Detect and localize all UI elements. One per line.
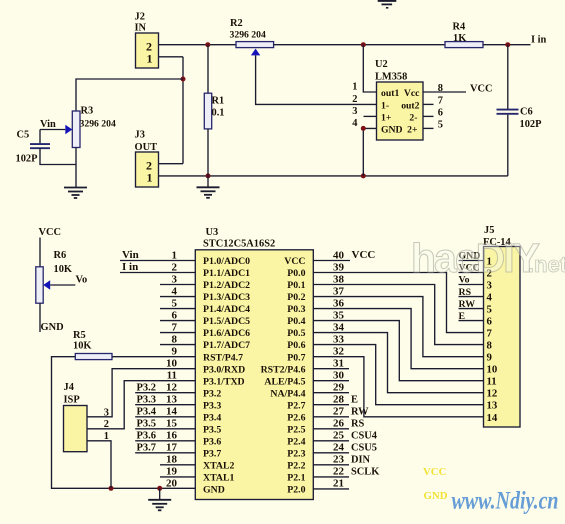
- svg-text:C5: C5: [17, 130, 30, 141]
- J4 pin numbers 3 2 1: [104, 408, 109, 442]
- svg-text:102P: 102P: [520, 119, 543, 130]
- svg-text:I in: I in: [122, 261, 138, 273]
- svg-text:RS: RS: [351, 419, 365, 430]
- junction on vertical at R3 branch: [181, 77, 186, 82]
- svg-text:2: 2: [352, 94, 357, 105]
- svg-text:E: E: [351, 395, 358, 406]
- svg-text:1: 1: [172, 249, 178, 261]
- svg-text:P0.7: P0.7: [287, 352, 305, 363]
- svg-text:5: 5: [487, 304, 492, 316]
- svg-text:7: 7: [487, 328, 493, 340]
- svg-text:P3.5: P3.5: [137, 419, 157, 430]
- wire Vin down to C5: [39, 130, 41, 144]
- svg-text:14: 14: [166, 406, 178, 418]
- junction gnd rail at J4 pin1: [109, 486, 114, 491]
- U3 left stubs pins 3-8: [160, 285, 195, 345]
- svg-text:RST/P4.7: RST/P4.7: [203, 352, 243, 363]
- svg-text:11: 11: [167, 370, 177, 382]
- svg-text:1: 1: [147, 52, 153, 66]
- svg-text:8: 8: [172, 333, 178, 345]
- wire vertical J2 pin1 to J3 pin2: [182, 57, 184, 164]
- svg-text:P2.7: P2.7: [287, 400, 305, 411]
- bus wires U3 P0.0-P0.7 to J5 pins 7-14: [313, 273, 483, 417]
- wire C5 bottom to R3 bottom: [40, 148, 76, 164]
- svg-text:3296 204: 3296 204: [230, 30, 266, 41]
- svg-text:24: 24: [333, 442, 345, 454]
- svg-text:J4: J4: [64, 382, 74, 393]
- svg-text:VCC: VCC: [39, 227, 62, 238]
- potentiometer R6 10K: [36, 238, 72, 333]
- svg-text:VCC: VCC: [352, 249, 376, 261]
- U2 pin3 stub: [364, 115, 377, 117]
- svg-text:31: 31: [333, 358, 344, 370]
- svg-text:R3: R3: [81, 106, 94, 117]
- wire J4 pin2 to U3 pin11: [87, 381, 195, 429]
- wire R5 right to U3 pin9: [112, 356, 195, 358]
- svg-text:37: 37: [333, 285, 345, 297]
- svg-text:8: 8: [438, 83, 443, 94]
- J5 stubs pins 1-6 with net labels GND VCC Vo RS RW E: [459, 251, 484, 322]
- svg-text:GND: GND: [41, 322, 64, 333]
- wire R5 left down to bottom gnd rail: [52, 357, 196, 489]
- svg-text:32: 32: [333, 346, 345, 358]
- svg-text:P1.0/ADC0: P1.0/ADC0: [203, 256, 250, 267]
- svg-text:P3.1/TXD: P3.1/TXD: [203, 376, 245, 387]
- svg-text:P0.2: P0.2: [287, 292, 305, 303]
- resistor R5 10K: [73, 330, 112, 360]
- svg-text:XTAL2: XTAL2: [203, 460, 234, 471]
- svg-text:Vin: Vin: [40, 119, 56, 130]
- connector J4 ISP: [64, 382, 88, 452]
- svg-text:9: 9: [487, 352, 493, 364]
- U2 pin8 wire and VCC net label: [423, 83, 493, 95]
- svg-text:10: 10: [166, 358, 178, 370]
- svg-text:P0.6: P0.6: [287, 340, 305, 351]
- svg-text:P0.1: P0.1: [287, 280, 305, 291]
- svg-text:P1.3/ADC3: P1.3/ADC3: [203, 292, 250, 303]
- MCU U3 STC12C5A16S2: [195, 227, 313, 500]
- svg-text:36: 36: [333, 297, 345, 309]
- svg-text:P3.2: P3.2: [203, 388, 221, 399]
- junction bottom rail at R1/ground: [206, 173, 211, 178]
- potentiometer R2 3296 204: [230, 18, 274, 55]
- svg-text:6: 6: [172, 309, 178, 321]
- svg-text:3296 204: 3296 204: [80, 119, 116, 130]
- svg-text:P2.4: P2.4: [287, 436, 305, 447]
- svg-text:21: 21: [333, 478, 344, 490]
- svg-text:17: 17: [166, 442, 178, 454]
- svg-text:VCC: VCC: [423, 466, 446, 478]
- svg-text:29: 29: [333, 382, 345, 394]
- svg-text:U3: U3: [206, 227, 219, 238]
- svg-text:3: 3: [487, 280, 493, 292]
- junction at U2 pin4: [361, 126, 366, 131]
- svg-text:14: 14: [487, 412, 498, 424]
- svg-text:R6: R6: [54, 250, 67, 261]
- wire J2 pin1 right: [159, 56, 184, 58]
- connector J5 FC-14: [483, 225, 520, 427]
- svg-text:6: 6: [438, 108, 443, 119]
- connector J3: [135, 130, 159, 188]
- svg-text:out2: out2: [401, 100, 419, 111]
- U2 left pin numbers 1-4: [352, 82, 357, 130]
- svg-text:P1.1/ADC1: P1.1/ADC1: [203, 268, 250, 279]
- svg-text:102P: 102P: [16, 154, 39, 165]
- svg-text:XTAL1: XTAL1: [203, 473, 234, 484]
- svg-text:P2.1: P2.1: [287, 473, 305, 484]
- resistor R1 0.1: [204, 45, 224, 176]
- svg-text:P3.7: P3.7: [137, 443, 157, 454]
- junction top rail at J2/R1: [205, 42, 210, 47]
- svg-text:10K: 10K: [73, 341, 91, 352]
- svg-text:P3.6: P3.6: [203, 436, 221, 447]
- U2 right pin stubs 7 6 5: [423, 96, 443, 131]
- svg-text:LM358: LM358: [375, 72, 407, 83]
- svg-text:P0.4: P0.4: [287, 316, 305, 327]
- ground on bottom rail: [207, 176, 209, 187]
- wire J2 pin2 to R2 (top rail left): [159, 44, 237, 46]
- svg-text:IN: IN: [135, 23, 147, 34]
- svg-text:RW: RW: [351, 407, 369, 418]
- svg-text:P0.0: P0.0: [287, 268, 305, 279]
- svg-text:J2: J2: [135, 12, 145, 23]
- svg-text:P1.2/ADC2: P1.2/ADC2: [203, 280, 250, 291]
- svg-text:P1.5/ADC5: P1.5/ADC5: [203, 316, 250, 327]
- junction top rail at U2 pin1 vertical: [361, 42, 366, 47]
- svg-text:STC12C5A16S2: STC12C5A16S2: [203, 239, 275, 250]
- svg-text:NA/P4.4: NA/P4.4: [270, 388, 305, 399]
- U3 net labels P3.2-P3.7 pins 12-17: [135, 383, 195, 454]
- svg-text:13: 13: [487, 400, 498, 412]
- svg-text:19: 19: [166, 466, 178, 478]
- node Vo (wiper wire of R6): [50, 275, 87, 286]
- svg-text:P3.3: P3.3: [203, 400, 221, 411]
- svg-text:18: 18: [166, 454, 178, 466]
- wire R2 wiper to U2 pin2: [256, 55, 377, 104]
- svg-text:38: 38: [333, 273, 345, 285]
- svg-text:Vcc: Vcc: [404, 88, 420, 99]
- svg-text:28: 28: [333, 394, 345, 406]
- wire J3 pin1 bottom rail: [159, 175, 508, 177]
- svg-text:DIN: DIN: [351, 455, 371, 466]
- svg-text:GND: GND: [381, 124, 403, 135]
- svg-text:R2: R2: [230, 18, 243, 29]
- wire R3 bottom to ground: [75, 148, 77, 188]
- svg-text:P1.6/ADC6: P1.6/ADC6: [203, 328, 250, 339]
- node Vin wire to U3 pin1: [120, 249, 195, 261]
- wire J4 pin3 to U3 pin10: [87, 369, 195, 417]
- svg-text:39: 39: [333, 261, 345, 273]
- svg-text:34: 34: [333, 321, 345, 333]
- svg-text:R1: R1: [212, 96, 225, 107]
- svg-text:GND: GND: [424, 490, 448, 502]
- capacitor C6 102P: [497, 45, 543, 176]
- svg-text:10K: 10K: [54, 264, 72, 275]
- svg-text:Vin: Vin: [122, 249, 139, 261]
- ground below gnd rail: [159, 488, 161, 500]
- svg-text:I in: I in: [531, 35, 547, 46]
- capacitor C5 102P: [16, 130, 51, 165]
- U3 right stubs pins 31-21 with net labels: [313, 369, 379, 489]
- svg-text:4: 4: [172, 285, 178, 297]
- svg-text:0.1: 0.1: [212, 108, 225, 119]
- svg-text:R4: R4: [453, 22, 466, 33]
- svg-text:P2.6: P2.6: [287, 412, 305, 423]
- svg-text:P3.3: P3.3: [137, 395, 157, 406]
- svg-text:.net: .net: [528, 252, 565, 277]
- partial ground symbol at top edge: [378, 1, 397, 8]
- svg-text:22: 22: [333, 466, 345, 478]
- svg-text:23: 23: [333, 454, 345, 466]
- U3 right pin numbers 40-21: [333, 249, 345, 489]
- svg-text:C6: C6: [520, 107, 533, 118]
- power VCC for R6: [39, 227, 62, 238]
- svg-text:ALE/P4.5: ALE/P4.5: [264, 376, 305, 387]
- svg-text:R5: R5: [73, 330, 86, 341]
- svg-text:5: 5: [172, 297, 178, 309]
- svg-text:20: 20: [166, 478, 178, 490]
- svg-text:3: 3: [172, 273, 178, 285]
- svg-text:CSU5: CSU5: [351, 443, 377, 454]
- svg-text:15: 15: [166, 418, 178, 430]
- svg-text:1+: 1+: [381, 112, 392, 123]
- svg-text:P2.2: P2.2: [287, 460, 305, 471]
- svg-text:8: 8: [487, 340, 493, 352]
- svg-text:11: 11: [487, 376, 497, 388]
- svg-text:P0.3: P0.3: [287, 304, 305, 315]
- svg-text:GND: GND: [203, 485, 225, 496]
- U3 pin40 VCC stub and label: [313, 249, 375, 261]
- svg-text:P2.0: P2.0: [287, 485, 305, 496]
- ground below R3: [64, 188, 87, 199]
- wire top rail R2 to R4: [274, 44, 445, 46]
- wire R3 top to vertical: [76, 79, 183, 111]
- wire U2 pin4 to bottom rail: [363, 128, 376, 176]
- svg-text:RST2/P4.6: RST2/P4.6: [261, 364, 306, 375]
- svg-text:P3.0/RXD: P3.0/RXD: [203, 364, 245, 375]
- svg-text:1-: 1-: [381, 100, 389, 111]
- svg-text:P3.6: P3.6: [137, 431, 157, 442]
- svg-text:U2: U2: [375, 59, 388, 70]
- wire U2 pin1 from top rail: [363, 45, 376, 92]
- svg-text:33: 33: [333, 333, 345, 345]
- svg-text:13: 13: [166, 394, 178, 406]
- svg-text:1: 1: [147, 171, 153, 185]
- node Vin (wiper wire of R3): [40, 119, 65, 130]
- svg-text:4: 4: [352, 118, 357, 129]
- svg-text:9: 9: [172, 346, 178, 358]
- svg-text:12: 12: [166, 382, 178, 394]
- svg-text:2-: 2-: [409, 112, 417, 123]
- resistor R4 1K: [445, 22, 483, 48]
- wire R4 right to I in node: [483, 44, 531, 46]
- svg-text:P3.4: P3.4: [137, 407, 157, 418]
- svg-text:Vo: Vo: [76, 275, 88, 286]
- watermark hacDIY.net: [411, 235, 565, 281]
- svg-text:SCLK: SCLK: [351, 467, 379, 478]
- U3 left pin numbers 1-20: [166, 249, 178, 489]
- svg-text:P2.5: P2.5: [287, 424, 305, 435]
- wire J4 pin1 to gnd rail: [87, 441, 111, 489]
- svg-text:7: 7: [438, 96, 443, 107]
- svg-text:27: 27: [333, 406, 345, 418]
- svg-text:2+: 2+: [407, 124, 418, 135]
- svg-text:RS: RS: [459, 287, 472, 298]
- svg-text:P1.7/ADC7: P1.7/ADC7: [203, 340, 250, 351]
- svg-text:P3.5: P3.5: [203, 424, 221, 435]
- svg-text:P2.3: P2.3: [287, 448, 305, 459]
- svg-text:35: 35: [333, 309, 345, 321]
- svg-text:ISP: ISP: [64, 395, 81, 406]
- svg-text:26: 26: [333, 418, 345, 430]
- svg-text:VCC: VCC: [470, 84, 493, 95]
- potentiometer R3 3296 204: [65, 106, 116, 148]
- svg-text:P3.4: P3.4: [203, 412, 221, 423]
- svg-text:www.Ndiy.cn: www.Ndiy.cn: [452, 488, 559, 515]
- svg-text:6: 6: [487, 316, 493, 328]
- svg-text:10: 10: [487, 364, 498, 376]
- node I in wire to U3 pin2: [120, 261, 195, 273]
- svg-text:P3.7: P3.7: [203, 448, 221, 459]
- op-amp U2 LM358: [375, 59, 423, 140]
- svg-text:RW: RW: [459, 299, 476, 310]
- svg-text:25: 25: [333, 430, 345, 442]
- svg-text:16: 16: [166, 430, 178, 442]
- junction bottom rail at U2 pin4 vertical: [361, 173, 366, 178]
- U3 left stubs pins 18-19: [160, 465, 195, 477]
- svg-text:hacDIY: hacDIY: [411, 235, 540, 281]
- svg-text:2: 2: [172, 261, 178, 273]
- junction gnd rail at ground stem: [157, 486, 162, 491]
- svg-text:7: 7: [172, 321, 178, 333]
- svg-text:5: 5: [438, 120, 443, 131]
- wire J3 pin2 to vertical: [159, 163, 184, 165]
- svg-text:P0.5: P0.5: [287, 328, 305, 339]
- svg-text:12: 12: [487, 388, 498, 400]
- svg-text:3: 3: [352, 106, 357, 117]
- junction at C6 top: [505, 42, 510, 47]
- svg-text:30: 30: [333, 370, 345, 382]
- svg-text:P3.2: P3.2: [137, 383, 157, 394]
- svg-text:out1: out1: [381, 88, 399, 99]
- connector J2: [135, 12, 159, 69]
- svg-text:40: 40: [333, 249, 345, 261]
- svg-text:CSU4: CSU4: [351, 431, 377, 442]
- svg-text:1: 1: [352, 82, 357, 93]
- svg-text:4: 4: [487, 292, 493, 304]
- svg-text:J3: J3: [135, 130, 145, 141]
- svg-text:P1.4/ADC4: P1.4/ADC4: [203, 304, 250, 315]
- svg-text:E: E: [459, 311, 466, 322]
- svg-text:VCC: VCC: [284, 256, 305, 267]
